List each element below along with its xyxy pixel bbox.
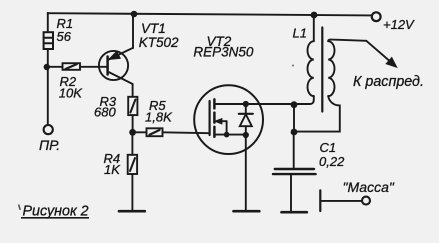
wire secondary top lead [328,40,366,42]
svg-text:1,8K: 1,8K [145,110,173,125]
wire R4 to ground [131,174,133,211]
node substrate/source [224,132,230,138]
svg-text:ПР.: ПР. [39,137,60,153]
node L1 on rail [311,12,318,19]
wire R5 to VT2 gate [163,131,210,134]
scan speck [19,205,21,210]
node drain/diode [243,101,249,107]
node B C1/secondary return [291,129,298,136]
svg-text:"Масса": "Масса" [343,179,395,195]
wire junction to R2 [48,66,63,68]
resistor R1 [44,32,53,49]
wire C1 to ground [290,175,292,212]
wire R3 to junction node [132,115,134,132]
transistor VT2 body circle [194,85,263,154]
wire node A down to node B [293,105,295,132]
ground bar under VT2 [234,210,260,213]
wire Massa bar to terminal [320,200,362,202]
VT2 source line [214,134,245,136]
terminal +12V circle [372,12,381,21]
terminal Massa bar [319,190,321,211]
terminal Massa circle [362,197,370,205]
svg-text:0,22: 0,22 [319,154,345,169]
wire VT2 source to ground [245,135,247,211]
VT2 substrate arrow [215,118,227,134]
caption underline [21,217,89,219]
svg-text:10K: 10K [59,85,83,100]
transistor VT1 [99,48,133,84]
wire node B to C1 [293,132,295,169]
svg-text:C1: C1 [320,140,337,155]
scan speck [292,65,294,67]
node A drain/primary/C1 [291,101,298,108]
resistor R3 [128,97,137,115]
resistor R4 [128,155,137,174]
VT2 channel segments [213,99,216,136]
inductor L1 primary winding [308,41,314,96]
svg-text:KT502: KT502 [139,35,179,50]
diode (VT2 body diode) [239,104,253,135]
node source/diode [243,132,249,138]
svg-text:К распред.: К распред. [353,74,424,90]
svg-text:1K: 1K [104,162,121,177]
wire node B to secondary winding bottom [294,96,340,132]
resistor R2 [63,63,81,70]
wire junction to R4 [131,136,133,155]
svg-text:L1: L1 [293,26,307,41]
resistor R5 [147,128,163,136]
arrow to distributor [366,41,396,67]
node junction R1/R2 [44,64,50,70]
svg-text:+12V: +12V [383,17,415,32]
terminal PR. circle [44,125,53,134]
wire VT2 drain line to node A [214,96,313,104]
svg-text:VT1: VT1 [141,21,166,36]
L1 core [321,28,323,112]
node VT1 emitter on rail [131,11,138,18]
inductor L1 secondary winding [328,41,334,96]
wire top +12V rail [48,13,372,15]
ground bar under R4 [119,210,145,213]
node R3/R4/R5 junction [129,129,136,136]
svg-text:REP3N50: REP3N50 [193,45,254,60]
wire R2 to VT1 base [80,66,107,68]
wire junction to R5 [133,131,147,133]
wire R1 to junction and down to PR terminal [47,49,49,125]
svg-text:680: 680 [94,105,116,120]
wire VT1 collector to R3 [132,84,134,97]
ground bar under C1 [282,211,307,214]
VT2 gate electrode [209,101,211,135]
wire L1 primary top to rail [313,15,315,41]
svg-text:56: 56 [57,29,72,44]
wire left vertical from rail to R1 [47,13,49,32]
wire VT1 emitter to rail [132,14,134,48]
capacitor C1 [273,169,316,174]
svg-text:Рисунок 2: Рисунок 2 [23,203,89,219]
